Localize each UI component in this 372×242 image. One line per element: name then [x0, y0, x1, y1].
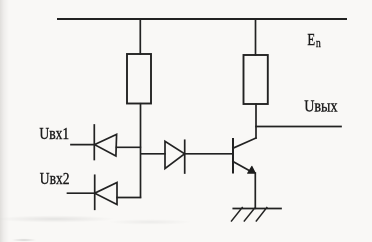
svg-text:Uвых: Uвых	[304, 97, 338, 116]
svg-text:n: n	[316, 35, 321, 50]
svg-text:E: E	[307, 30, 315, 49]
svg-text:Uвх1: Uвх1	[39, 124, 69, 143]
svg-text:Uвх2: Uвх2	[40, 169, 70, 188]
